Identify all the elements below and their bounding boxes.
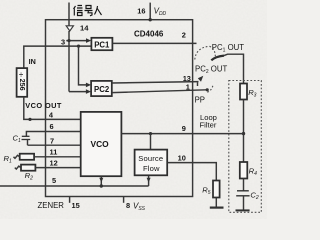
svg-text:Filter: Filter [200,121,217,130]
wire down to source follower [150,134,152,150]
pin 6 wire [26,132,80,137]
svg-text:7: 7 [50,137,54,146]
wire R4 to C2 [243,179,245,191]
wire amp output [68,31,70,92]
arrow into PC2 upper [86,83,91,88]
resistor R4 [240,162,248,179]
svg-text:16: 16 [137,6,145,15]
switch dashed arc right [210,46,216,58]
ground rail pin 5 [0,185,149,187]
wire divider to pin4 line [24,97,81,120]
junction pin16 [149,18,152,21]
arrow into PC2 lower [86,89,91,94]
pin 10 wire [168,163,217,181]
ground bar R5 [210,207,224,209]
svg-text:256: 256 [18,79,27,91]
arrow into PC1 [86,38,91,43]
pin 1 terminal dot [206,88,209,91]
svg-text:5: 5 [52,176,56,185]
pin 12 wire [35,167,80,169]
svg-text:CD4046: CD4046 [134,30,164,39]
svg-text:VCO: VCO [91,139,110,149]
svg-text:10: 10 [178,153,186,162]
ground C2 [236,209,250,211]
switch dashed arc bottom [207,86,213,93]
入 [95,6,102,15]
capacitor C2 [236,191,249,210]
junction on amp line [67,39,70,42]
号 [85,6,93,16]
svg-text:VCO OUT: VCO OUT [25,101,62,110]
label 信号入 (signal in), hand-drawn glyphs [74,6,102,16]
wire amp line down into PC2 lower [69,91,89,93]
input amplifier triangle [66,26,73,31]
svg-text:Source: Source [138,154,163,163]
pin 16 VDD wire [149,3,151,20]
svg-text:15: 15 [72,201,80,210]
resistor R2 [15,165,36,171]
PC2 output wire pin 13 [112,82,199,83]
phase comparator PC2 [91,81,112,96]
source follower box [135,150,168,176]
svg-text:2: 2 [182,31,186,40]
svg-text:PP: PP [195,96,205,105]
svg-text:11: 11 [50,148,58,157]
svg-text:Flow: Flow [143,164,160,173]
junction pin3 branch [77,45,80,48]
switch dashed throw arc top [195,46,210,59]
信 [74,6,83,16]
svg-text:ZENER: ZENER [38,201,65,210]
wire R3 to junction [243,100,245,163]
signal input wire pin 14 [68,3,70,26]
junction pin4 [28,118,31,121]
svg-text:÷: ÷ [19,70,23,79]
resistor R5 [213,181,220,198]
pin 7 wire [28,144,81,146]
svg-text:9: 9 [182,124,186,133]
pin 9 wire VCO input [121,133,243,135]
wire R5 to ground [215,198,217,208]
VCO box [81,112,122,176]
resistor R3 [240,84,247,100]
capacitor C1 [22,136,31,145]
svg-text:3: 3 [61,37,65,46]
pin 13 arrowhead [198,76,204,82]
wire branch down to PC2 input [79,46,89,85]
junction loop filter / pin 9 [242,132,245,135]
source flow ground riser with arrow [147,176,151,187]
svg-text:PC1 OUT: PC1 OUT [212,43,244,54]
svg-text:12: 12 [50,159,58,168]
phase comparator PC1 [91,38,112,50]
svg-text:PC1: PC1 [94,41,110,50]
pin 11 wire [34,156,81,158]
resistor R1 [14,154,35,160]
wire pin3 comparator input [24,46,91,68]
svg-text:1: 1 [186,83,190,92]
PC1 output wire pin 2 [112,42,196,44]
loop filter dashed box [229,81,261,213]
svg-text:6: 6 [50,122,54,131]
divider box 256 [17,68,28,97]
svg-text:PC2: PC2 [94,85,110,94]
PC2 output wire pin 1 [112,90,207,93]
IC outline CD4046 [46,20,193,197]
switch wiper [211,56,224,61]
svg-text:IN: IN [29,57,36,66]
svg-text:PC2 OUT: PC2 OUT [195,65,227,76]
VCO ground stub with arrow [99,176,103,188]
wiper output wire to loop filter [224,54,244,83]
IC bottom pin ticks [69,197,71,203]
pin 13 switch tick [197,82,199,86]
wire comparator signal to PC1 (pin14 path) [66,40,88,42]
junction source follower branch [149,132,152,135]
svg-text:14: 14 [80,23,89,32]
svg-text:8: 8 [126,201,130,210]
